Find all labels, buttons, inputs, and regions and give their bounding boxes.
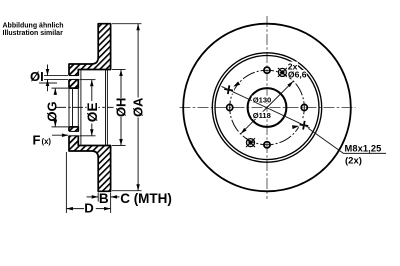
- threaded hole M8 lower-right (x mark): [299, 120, 309, 130]
- leader to M8 label: [304, 125, 386, 153]
- threaded hole M8 upper-left (x mark): [224, 85, 234, 95]
- svg-text:B: B: [99, 191, 109, 206]
- dimension ØI (small arrows outside): [30, 65, 48, 92]
- bolt circle (dashed): [230, 70, 305, 145]
- extension lines ØE: [80, 80, 96, 136]
- svg-text:(2x): (2x): [345, 155, 362, 166]
- svg-text:Ø118: Ø118: [253, 111, 271, 120]
- dimension ØG: [45, 88, 60, 126]
- horizontal centreline: [180, 107, 356, 109]
- svg-text:Ø130: Ø130: [253, 95, 271, 104]
- section body lower half (friction ring + hat web + flange), hatched: [69, 127, 111, 191]
- section body upper half (friction ring + hat web + flange), hatched: [69, 24, 111, 88]
- note: Abbildung ähnlich / Illustration similar: [3, 22, 64, 37]
- wheel bolt hole top: [264, 67, 270, 73]
- dimension C (MTH) label: [120, 191, 172, 206]
- dimension ØH: [114, 70, 129, 146]
- bolt circle arrowhead lower-right: [292, 125, 299, 129]
- svg-text:ØH: ØH: [114, 98, 129, 118]
- svg-text:F: F: [33, 132, 41, 147]
- retaining screw hole Ø6,6 upper-right (filled): [278, 68, 287, 77]
- label M8x1,25 (2x): [345, 144, 382, 167]
- wheel bolt hole right: [301, 104, 307, 110]
- section centreline: [56, 106, 114, 108]
- bolt hole in flange, lower (white gap): [68, 131, 80, 136]
- bolt hole in flange, upper (white gap, dia I): [68, 75, 80, 79]
- svg-text:ØA: ØA: [131, 97, 146, 117]
- retaining screw hole Ø6,6 lower-left (filled): [246, 138, 255, 147]
- dimension D: [66, 152, 110, 215]
- svg-text:Illustration similar: Illustration similar: [3, 30, 64, 37]
- wheel bolt hole bottom: [264, 142, 270, 148]
- extension lines ØH: [112, 70, 126, 146]
- svg-text:D: D: [84, 200, 94, 215]
- bolt circle arrowhead upper-left: [233, 81, 240, 86]
- dimension line Ø130 (45 deg across bolt circle): [241, 108, 267, 134]
- label Ø118: [252, 111, 271, 120]
- flange extra hatch (scan darkness): [70, 65, 78, 88]
- svg-text:M8x1,25: M8x1,25: [345, 144, 382, 154]
- friction band inner edge, double circle: [212, 53, 321, 162]
- label 2x Ø6,6 with leader: [284, 61, 306, 79]
- outer circle (ØA): [183, 24, 351, 192]
- svg-text:ØG: ØG: [45, 101, 60, 121]
- vertical centreline: [266, 16, 268, 199]
- svg-text:ØE: ØE: [85, 103, 100, 123]
- elevation lines seen through hat window: [81, 70, 108, 146]
- svg-text:ØI: ØI: [30, 69, 44, 84]
- dimension F(x) leader: [33, 132, 69, 147]
- dimension B (below section): [87, 191, 120, 213]
- label Ø130: [252, 95, 271, 104]
- dimension ØE: [85, 80, 100, 136]
- axis line through threaded holes (25 deg): [222, 86, 304, 125]
- extension lines ØG: [52, 88, 69, 127]
- centre bore circle: [248, 88, 287, 127]
- extension lines ØA: [112, 24, 142, 191]
- svg-text:Ø6,6: Ø6,6: [288, 70, 307, 80]
- wheel bolt hole left: [227, 104, 233, 110]
- svg-text:Abbildung ähnlich: Abbildung ähnlich: [3, 22, 64, 29]
- gap in bolt circle at threaded holes: [223, 84, 234, 95]
- extension lines ØI: [39, 76, 68, 83]
- dimension ØA: [131, 24, 146, 191]
- svg-text:(x): (x): [42, 137, 52, 146]
- elevation lines seen through centre bore: [69, 88, 78, 127]
- svg-text:C (MTH): C (MTH): [120, 191, 172, 206]
- axis line overlay through x marks: [223, 87, 235, 93]
